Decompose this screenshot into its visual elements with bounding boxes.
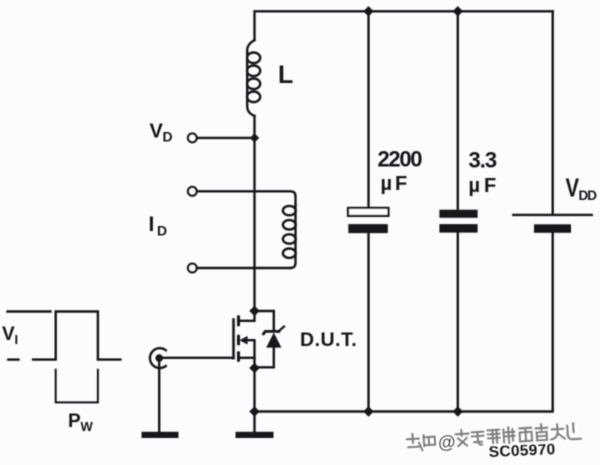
svg-text:µ: µ (469, 175, 481, 197)
pulse baseline dash (8, 358, 18, 360)
glyph 9 (550, 424, 565, 440)
wire coax to ground (158, 361, 160, 432)
pulse waveform trace (33, 312, 120, 360)
wire ID upper (197, 191, 296, 205)
svg-text:V: V (566, 173, 580, 202)
inductor L (247, 40, 254, 116)
transistor Q1 body arrow (239, 336, 247, 345)
wire source stub (240, 357, 255, 359)
transistor Q1 channel segments (237, 317, 240, 325)
body diode triangle (266, 333, 281, 348)
terminal ID lower circle (188, 264, 197, 273)
wire gate lead (163, 357, 234, 359)
battery VDD positive plate (513, 214, 591, 216)
svg-text:D: D (163, 129, 173, 145)
glyph 3 (455, 430, 469, 447)
svg-text:I: I (15, 332, 19, 347)
ground main (236, 432, 274, 438)
junction dot bottom rail C1 (363, 406, 373, 416)
svg-text:µ: µ (381, 173, 393, 195)
junction dot top rail C1 (363, 6, 373, 16)
coax center dot (155, 354, 163, 362)
current-sense coil (291, 205, 296, 268)
glyph 6 (503, 427, 515, 444)
terminal VD circle (188, 133, 197, 142)
svg-text:F: F (395, 173, 407, 195)
svg-text:DD: DD (579, 188, 598, 203)
wire drain stack vertical (253, 116, 255, 311)
glyph 5 (487, 430, 500, 444)
transistor Q1 drain stub (240, 311, 255, 321)
wire top rail (255, 11, 553, 40)
coax shield arc (150, 348, 166, 368)
svg-text:P: P (68, 411, 81, 432)
terminal ID upper circle (188, 187, 197, 196)
wire bottom rail (255, 233, 553, 412)
svg-text:V: V (2, 324, 15, 345)
body diode branch (255, 311, 274, 331)
glyph 10 (567, 423, 581, 440)
svg-text:D: D (157, 223, 167, 239)
diode cathode bar (264, 331, 280, 333)
battery VDD negative plate (534, 224, 571, 233)
capacitor C2 bottom plate (439, 224, 477, 233)
svg-text:3.3: 3.3 (469, 148, 497, 173)
wire VD (197, 137, 255, 139)
svg-text:@: @ (437, 431, 456, 452)
glyph 2 (424, 435, 436, 447)
svg-text:V: V (150, 121, 164, 143)
glyph 4 (471, 432, 484, 446)
wire ID lower (197, 267, 291, 269)
capacitor C1 bottom plate (348, 224, 388, 233)
glyph 1 (406, 433, 422, 451)
transistor Q1 gate plate (232, 320, 235, 359)
junction dot bottom rail C2 (453, 406, 463, 416)
junction dot VD node (250, 133, 259, 142)
junction dot bottom rail main (249, 406, 259, 416)
pulse waveform reference line (8, 310, 51, 312)
capacitor C2 top plate (439, 210, 477, 218)
svg-text:D.U.T.: D.U.T. (300, 329, 357, 351)
PW bracket (56, 370, 98, 403)
capacitor C1 top plate (outlined) (348, 208, 389, 216)
svg-text:I: I (149, 213, 155, 236)
svg-text:L: L (278, 61, 293, 89)
ground coax (142, 432, 179, 438)
battery VDD branch wire (552, 11, 554, 215)
junction dot drain node (249, 306, 259, 316)
svg-text:F: F (484, 175, 496, 197)
wire source down to ground (253, 368, 255, 432)
glyph 7 (519, 428, 532, 442)
junction dot source node (249, 363, 259, 373)
capacitor C2 branch wires (457, 11, 459, 209)
watermark knowhow (406, 422, 582, 455)
capacitor C1 branch wires (367, 11, 369, 208)
svg-text:2200: 2200 (378, 147, 423, 172)
svg-text:SC05970: SC05970 (488, 441, 555, 461)
junction dot top rail C2 (453, 6, 463, 16)
wire body connection (247, 340, 255, 368)
glyph 8 (535, 424, 548, 441)
svg-text:W: W (81, 419, 94, 434)
